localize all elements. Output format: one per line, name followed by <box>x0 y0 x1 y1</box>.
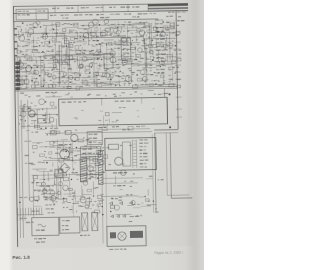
svg-text:Радио № 2, 1982 г.: Радио № 2, 1982 г. <box>154 251 184 256</box>
svg-text:Рис. 1.8: Рис. 1.8 <box>12 255 30 260</box>
